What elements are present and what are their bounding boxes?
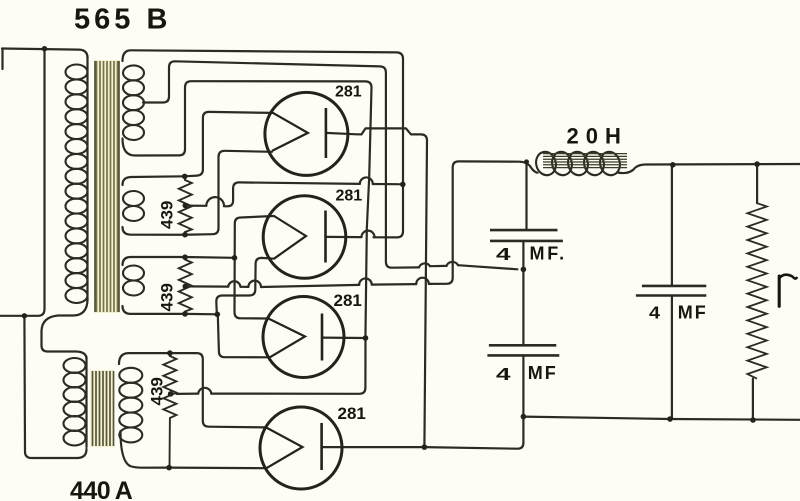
svg-text:MF.: MF. <box>530 244 567 264</box>
svg-text:MF: MF <box>678 303 708 323</box>
svg-text:281: 281 <box>335 84 362 101</box>
svg-text:MF: MF <box>528 363 558 383</box>
svg-text:4: 4 <box>649 303 661 323</box>
svg-text:281: 281 <box>338 404 366 423</box>
svg-text:439: 439 <box>157 201 176 229</box>
svg-text:439: 439 <box>157 283 176 311</box>
svg-text:565 B: 565 B <box>74 4 171 36</box>
svg-text:20H: 20H <box>567 124 628 149</box>
svg-text:439: 439 <box>148 377 167 405</box>
svg-text:4: 4 <box>496 244 511 264</box>
svg-text:4: 4 <box>496 364 511 384</box>
svg-text:440 A: 440 A <box>70 477 133 501</box>
svg-text:281: 281 <box>336 188 363 205</box>
svg-text:281: 281 <box>334 291 362 310</box>
